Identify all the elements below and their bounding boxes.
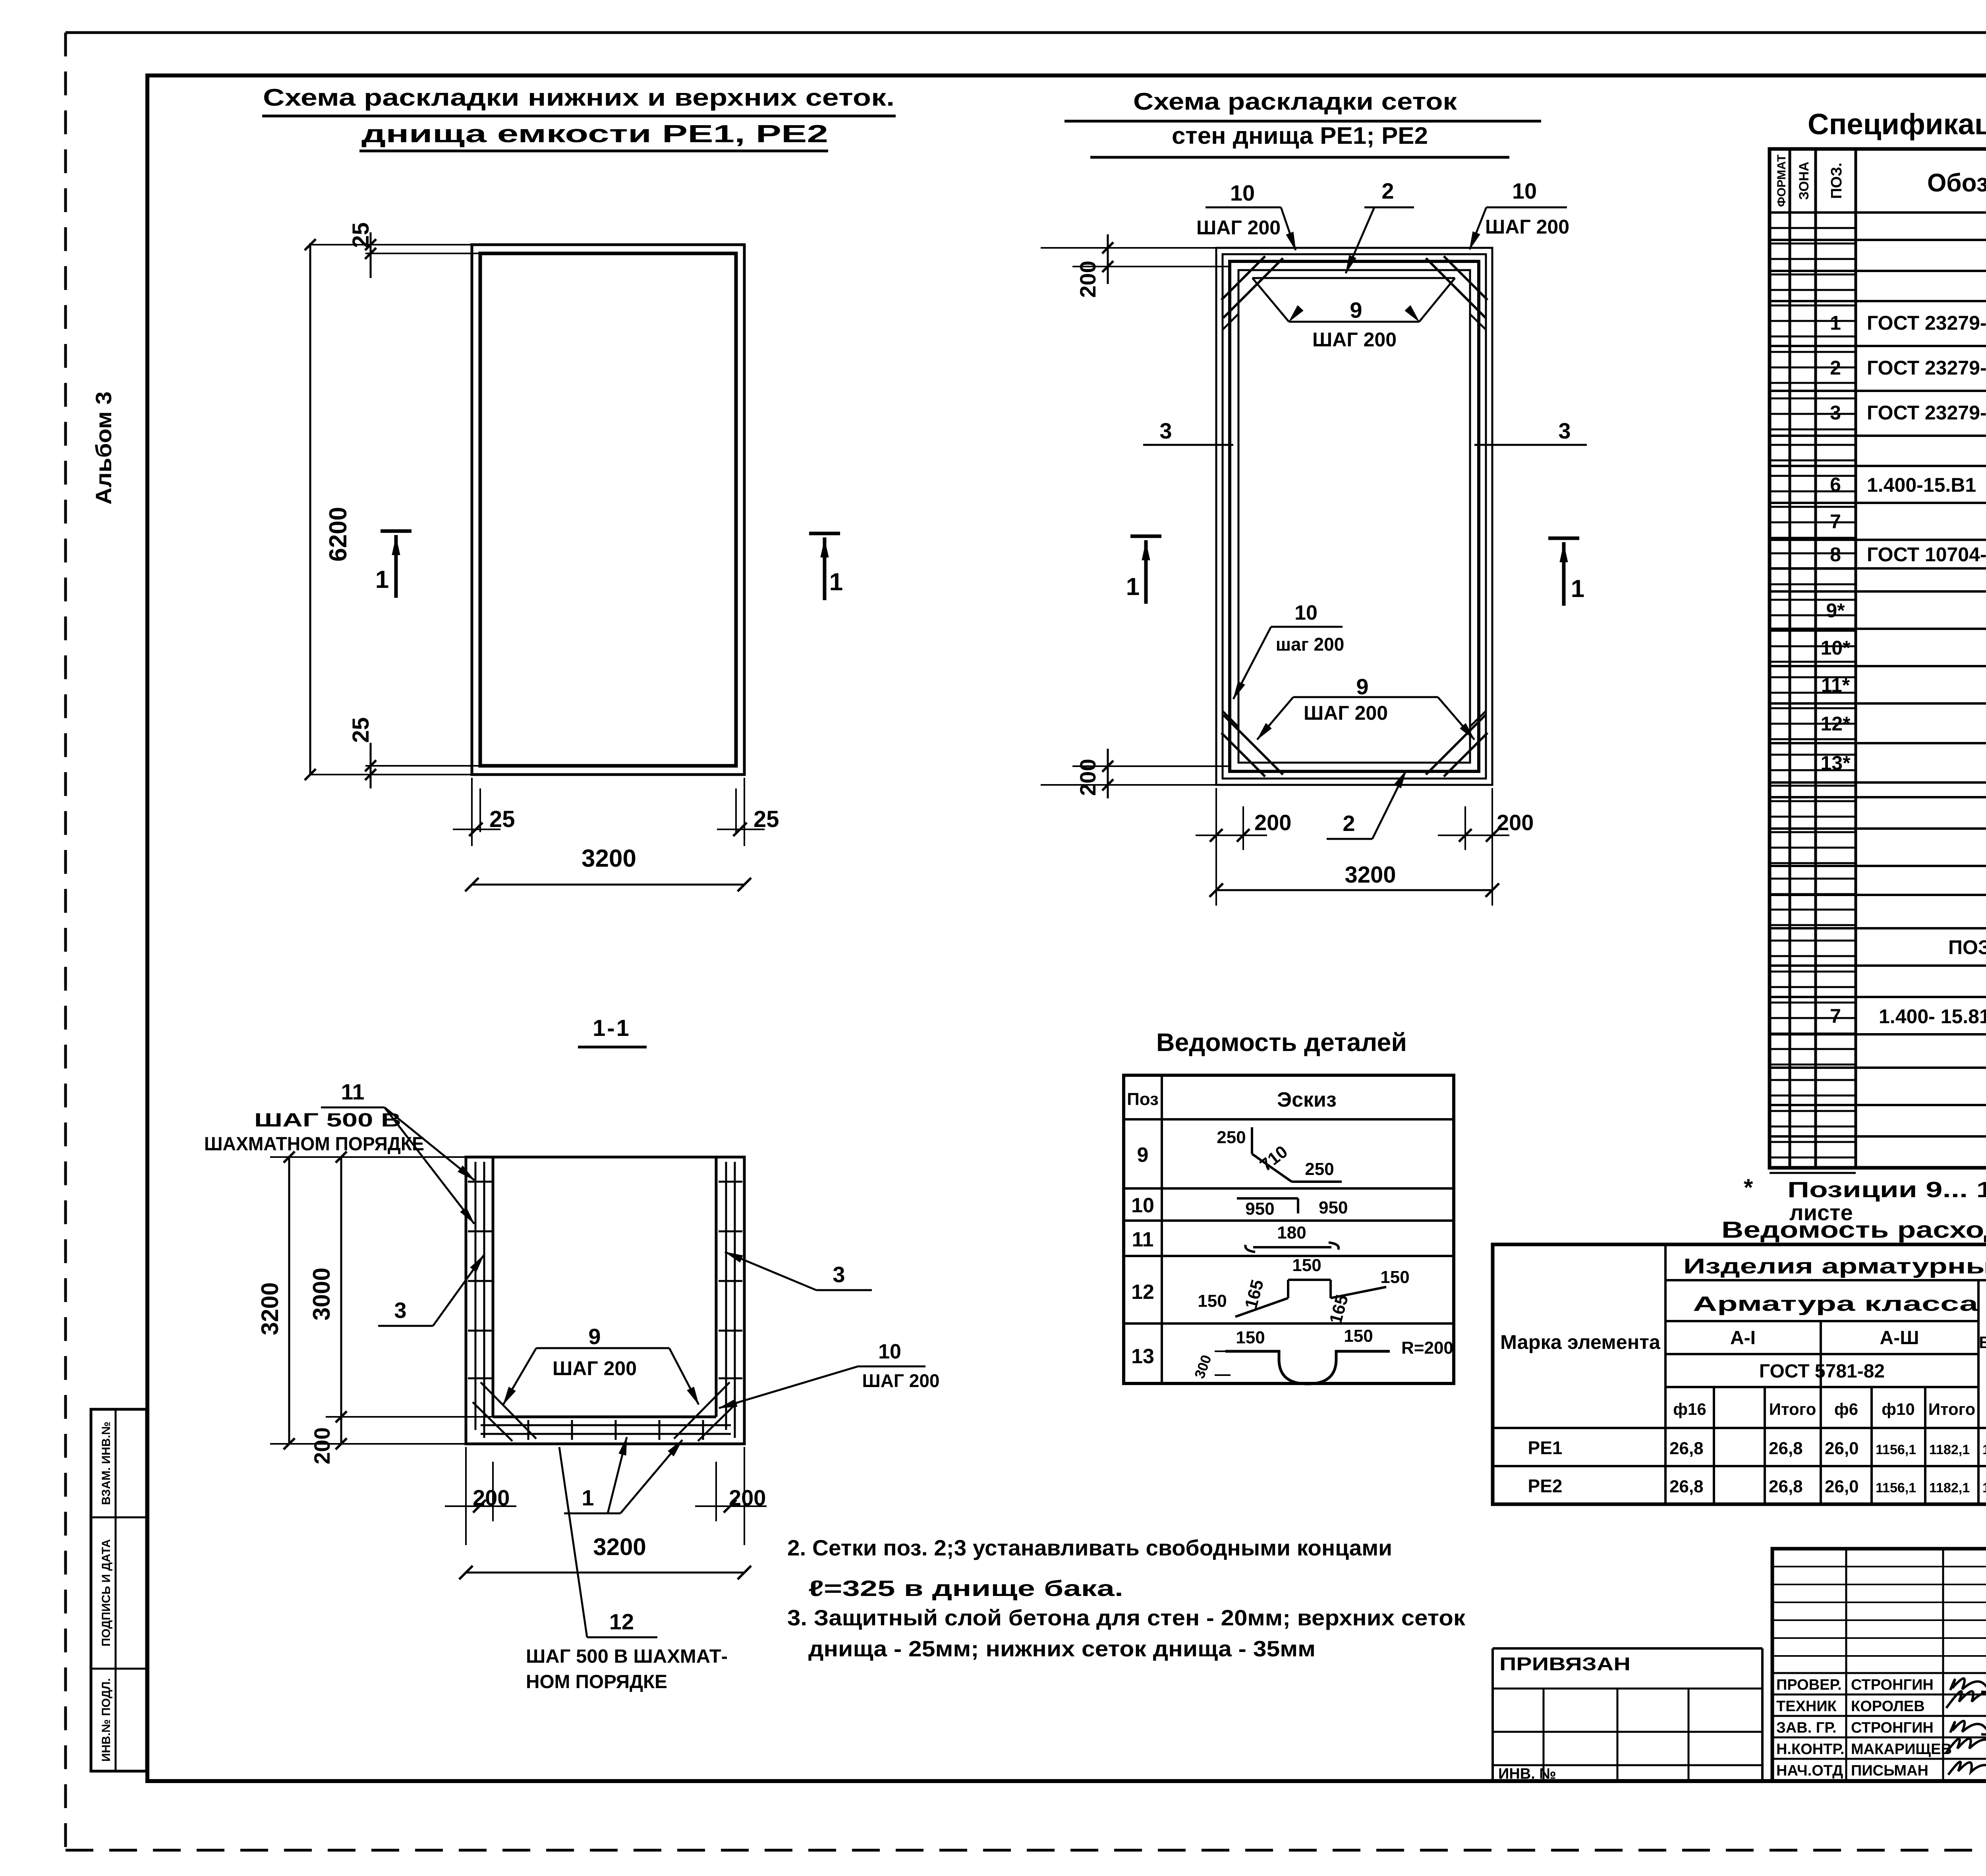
svg-text:ЗАВ. ГР.: ЗАВ. ГР. (1776, 1720, 1837, 1736)
svg-text:26,8: 26,8 (1669, 1477, 1704, 1496)
svg-text:ШАГ 200: ШАГ 200 (1485, 216, 1569, 238)
svg-text:ШАГ 200: ШАГ 200 (1304, 702, 1388, 724)
svg-text:ПРИВЯЗАН: ПРИВЯЗАН (1499, 1654, 1631, 1674)
steel table grid (1493, 1244, 1986, 1504)
svg-text:1: 1 (582, 1485, 594, 1510)
svg-text:7: 7 (1830, 1005, 1841, 1027)
svg-text:ПОЗ. 1...6 ,: ПОЗ. 1...6 , (1948, 936, 1986, 958)
dimension 3000 / 200 (section inner) (340, 1157, 342, 1444)
svg-text:ГОСТ 23279-85: ГОСТ 23279-85 (1867, 357, 1986, 379)
svg-text:13: 13 (1131, 1345, 1154, 1368)
svg-text:10: 10 (1230, 180, 1255, 205)
section mark 1 (right of wall view) (1548, 537, 1579, 540)
svg-text:25: 25 (348, 717, 374, 743)
svg-text:1: 1 (1126, 573, 1140, 601)
svg-text:9: 9 (1356, 674, 1368, 699)
dimension 3200 (wall view bottom) (1216, 889, 1492, 891)
dimension 3200 (plan bottom) (472, 884, 744, 886)
dimension 200 (top-left of wall view) (1041, 247, 1216, 249)
svg-text:МАКАРИЩЕВ: МАКАРИЩЕВ (1851, 1741, 1952, 1758)
svg-text:Арматура класса: Арматура класса (1693, 1293, 1979, 1316)
corner diagonals top-left (1221, 256, 1265, 300)
svg-text:25: 25 (753, 806, 779, 832)
wall mesh view: outer contour (1216, 248, 1492, 785)
privyazan block (1493, 1647, 1762, 1650)
svg-text:ИНВ.№ ПОДЛ.: ИНВ.№ ПОДЛ. (100, 1678, 113, 1762)
plan view outline (472, 245, 744, 775)
svg-text:*: * (1744, 1174, 1753, 1201)
svg-text:РЕ2: РЕ2 (1528, 1476, 1563, 1496)
wall mesh view: inner contour (1238, 270, 1470, 763)
svg-text:Марка элемента: Марка элемента (1500, 1331, 1661, 1353)
svg-text:200: 200 (1075, 759, 1100, 796)
svg-text:3200: 3200 (593, 1534, 646, 1560)
svg-text:ШАХМАТНОМ ПОРЯДКЕ: ШАХМАТНОМ ПОРЯДКЕ (204, 1134, 424, 1155)
outer border (66, 31, 1986, 34)
specification table grid (1770, 149, 1986, 1168)
svg-text:26,0: 26,0 (1825, 1439, 1859, 1458)
svg-text:26,8: 26,8 (1669, 1439, 1704, 1458)
svg-text:11: 11 (341, 1079, 364, 1104)
svg-text:2. Сетки поз. 2;3 устанавлива: 2. Сетки поз. 2;3 устанавливать свободны… (787, 1535, 1392, 1560)
svg-text:Итого: Итого (1769, 1400, 1816, 1418)
svg-text:3: 3 (833, 1262, 845, 1287)
svg-text:10: 10 (1294, 601, 1318, 624)
svg-text:Всего: Всего (1979, 1333, 1986, 1352)
svg-text:шаг 200: шаг 200 (1276, 634, 1345, 655)
svg-text:ф16: ф16 (1673, 1400, 1706, 1418)
svg-text:1156,1: 1156,1 (1876, 1442, 1916, 1457)
svg-text:Поз: Поз (1127, 1090, 1159, 1109)
svg-text:ШАГ 200: ШАГ 200 (1312, 328, 1397, 351)
svg-text:1182,1: 1182,1 (1929, 1442, 1970, 1457)
svg-text:150: 150 (1344, 1326, 1373, 1346)
svg-text:А-I: А-I (1730, 1327, 1756, 1349)
svg-text:2: 2 (1830, 357, 1841, 379)
svg-text:9: 9 (1137, 1144, 1149, 1167)
svg-text:200: 200 (1254, 810, 1291, 835)
svg-text:150: 150 (1236, 1328, 1265, 1347)
svg-text:3000: 3000 (308, 1267, 335, 1320)
svg-text:Альбом 3: Альбом 3 (91, 392, 116, 505)
mesh 9 extent (top trapezoid) (1252, 277, 1455, 279)
right wall inner edge (715, 1157, 718, 1417)
svg-text:3: 3 (1830, 402, 1841, 424)
svg-text:3200: 3200 (257, 1282, 283, 1335)
svg-text:1-1: 1-1 (593, 1015, 631, 1041)
left wall mesh (475, 1162, 477, 1430)
svg-text:РЕ1: РЕ1 (1528, 1437, 1563, 1458)
svg-text:950: 950 (1319, 1198, 1348, 1217)
svg-text:СТРОНГИН: СТРОНГИН (1851, 1677, 1934, 1693)
svg-text:26,0: 26,0 (1825, 1477, 1859, 1496)
svg-text:9*: 9* (1826, 599, 1845, 622)
svg-text:200: 200 (1075, 261, 1100, 298)
svg-text:6200: 6200 (325, 507, 352, 562)
svg-text:3: 3 (1159, 418, 1172, 443)
svg-text:6: 6 (1830, 473, 1841, 496)
svg-text:1182,1: 1182,1 (1929, 1480, 1970, 1495)
wall mesh dashes (1223, 314, 1238, 330)
svg-text:150: 150 (1380, 1267, 1409, 1287)
svg-text:26,8: 26,8 (1769, 1477, 1803, 1496)
svg-text:Ведомость деталей: Ведомость деталей (1156, 1028, 1407, 1057)
svg-text:ВЗАМ. ИНВ.№: ВЗАМ. ИНВ.№ (100, 1422, 113, 1505)
bottom dimensions of wall view (1215, 788, 1217, 906)
svg-text:3: 3 (1558, 418, 1571, 443)
svg-text:10*: 10* (1820, 637, 1851, 659)
sketch pos 10 (1237, 1197, 1298, 1200)
slab mesh (481, 1424, 731, 1426)
svg-text:ШАГ 500 В: ШАГ 500 В (254, 1110, 401, 1131)
section outline (466, 1157, 744, 1444)
mesh 9 extent (bottom trapezoid) (1293, 696, 1438, 698)
svg-text:2: 2 (1343, 811, 1355, 836)
svg-text:950: 950 (1245, 1199, 1274, 1219)
dimension 25 bottom (left end of 3200) (471, 778, 473, 846)
section mark 1 (right of plan) (809, 532, 840, 535)
corner diagonals top-right (1444, 256, 1488, 300)
svg-text:10: 10 (878, 1340, 901, 1363)
svg-text:ПОЗ.: ПОЗ. (1828, 162, 1845, 199)
svg-text:1.400- 15.81: 1.400- 15.81 (1879, 1005, 1986, 1028)
svg-text:9: 9 (1350, 298, 1362, 323)
svg-text:10: 10 (1512, 178, 1537, 203)
svg-text:ИНВ. №: ИНВ. № (1498, 1766, 1556, 1782)
svg-text:ШАГ 200: ШАГ 200 (553, 1357, 637, 1379)
svg-text:8: 8 (1830, 543, 1841, 566)
svg-text:710: 710 (1256, 1142, 1291, 1175)
svg-text:ТЕХНИК: ТЕХНИК (1776, 1698, 1837, 1715)
svg-text:1156,1: 1156,1 (1876, 1480, 1916, 1495)
svg-text:1: 1 (375, 566, 389, 593)
title block outline (1772, 1549, 1986, 1781)
svg-text:ПРОВЕР.: ПРОВЕР. (1776, 1677, 1842, 1693)
dimension 200 (bottom-left of wall view) (1041, 784, 1216, 786)
svg-text:НАЧ.ОТД: НАЧ.ОТД (1776, 1762, 1843, 1779)
svg-text:ℓ=325 в днище бака.: ℓ=325 в днище бака. (808, 1576, 1123, 1601)
svg-text:ШАГ 200: ШАГ 200 (1196, 216, 1281, 239)
section mark 1 (left of wall view) (1130, 535, 1161, 538)
svg-text:11*: 11* (1821, 674, 1850, 696)
svg-text:стен днища РЕ1; РЕ2: стен днища РЕ1; РЕ2 (1172, 122, 1428, 149)
svg-text:25: 25 (489, 806, 515, 832)
signatures (1950, 1679, 1986, 1692)
label 12 with leader (559, 1447, 587, 1637)
svg-text:ГОСТ 23279-85: ГОСТ 23279-85 (1867, 312, 1986, 334)
svg-text:9: 9 (588, 1324, 601, 1349)
svg-text:Спецификация арматуры к РЕ1: Спецификация арматуры к РЕ1; РЕ2. (1808, 108, 1986, 141)
corner diagonals bottom-right (1444, 733, 1488, 777)
svg-text:13*: 13* (1820, 752, 1851, 774)
svg-text:Эскиз: Эскиз (1277, 1088, 1337, 1111)
svg-text:3200: 3200 (582, 845, 636, 872)
svg-text:КОРОЛЕВ: КОРОЛЕВ (1851, 1698, 1925, 1715)
svg-text:ф6: ф6 (1834, 1400, 1858, 1418)
svg-text:12*: 12* (1820, 713, 1851, 735)
svg-text:200: 200 (309, 1427, 334, 1464)
left margin stamp strip (91, 1409, 147, 1771)
svg-text:3. Защитный слой бетона для: 3. Защитный слой бетона для стен - 20мм;… (787, 1605, 1466, 1630)
svg-text:ФОРМАТ: ФОРМАТ (1775, 155, 1788, 207)
svg-text:10: 10 (1131, 1194, 1154, 1217)
svg-text:1: 1 (829, 568, 843, 596)
svg-text:3200: 3200 (1345, 862, 1396, 888)
svg-text:1: 1 (1571, 575, 1584, 603)
svg-text:1208,9: 1208,9 (1982, 1480, 1986, 1495)
corner diagonals bottom-left (1221, 733, 1265, 777)
svg-text:200: 200 (729, 1485, 766, 1510)
svg-text:ф10: ф10 (1882, 1400, 1915, 1418)
svg-text:150: 150 (1198, 1291, 1227, 1311)
mesh 9 extent in section (536, 1347, 669, 1349)
svg-text:300: 300 (1191, 1352, 1215, 1380)
svg-text:ПИСЬМАН: ПИСЬМАН (1851, 1762, 1928, 1779)
parts list table (1124, 1075, 1454, 1383)
svg-text:26,8: 26,8 (1769, 1439, 1803, 1458)
svg-text:ГОСТ 23279-85: ГОСТ 23279-85 (1867, 402, 1986, 424)
dimension 25 top-left (365, 253, 480, 254)
slab top edge (493, 1416, 716, 1418)
svg-text:180: 180 (1277, 1223, 1306, 1242)
svg-text:А-Ш: А-Ш (1880, 1327, 1919, 1349)
svg-text:200: 200 (1497, 810, 1534, 835)
svg-text:11: 11 (1132, 1228, 1154, 1251)
svg-text:250: 250 (1217, 1128, 1246, 1147)
corner bars bottom-right (674, 1382, 730, 1439)
corner bars bottom-left (481, 1382, 536, 1439)
svg-text:Позиции 9... 13 см. ведомо: Позиции 9... 13 см. ведомость деталей на… (1787, 1177, 1986, 1202)
svg-text:1: 1 (1830, 312, 1841, 334)
dimension 25 bottom-left (365, 765, 480, 767)
svg-text:Схема раскладки сеток: Схема раскладки сеток (1133, 88, 1457, 115)
svg-text:днища - 25мм; нижних сеток: днища - 25мм; нижних сеток днища - 35мм (808, 1636, 1316, 1661)
svg-text:12: 12 (609, 1609, 634, 1634)
svg-text:днища емкости РЕ1, РЕ2: днища емкости РЕ1, РЕ2 (361, 120, 828, 148)
right wall mesh (725, 1162, 727, 1430)
svg-text:Схема раскладки нижних и верхн: Схема раскладки нижних и верхних сеток. (263, 84, 894, 111)
section mark 1 (left of plan) (381, 529, 411, 533)
svg-text:1.400-15.В1: 1.400-15.В1 (1867, 474, 1976, 496)
svg-text:2: 2 (1381, 178, 1394, 203)
wall mesh view: mesh line outer (1223, 254, 1486, 779)
svg-text:Н.КОНТР.: Н.КОНТР. (1776, 1741, 1845, 1758)
svg-text:ШАГ 200: ШАГ 200 (862, 1370, 939, 1391)
svg-text:ШАГ 500 В ШАХМАТ-: ШАГ 500 В ШАХМАТ- (526, 1646, 728, 1667)
svg-text:25: 25 (348, 222, 374, 248)
svg-text:1208,9: 1208,9 (1982, 1442, 1986, 1457)
svg-text:Ведомость расхода стали: Ведомость расхода стали на элемент, кг. (1721, 1217, 1986, 1243)
svg-text:Изделия арматурные: Изделия арматурные (1683, 1254, 1986, 1278)
svg-text:Итого: Итого (1928, 1400, 1975, 1418)
svg-text:3: 3 (394, 1298, 406, 1323)
bottom dimensions of section (465, 1447, 467, 1545)
dimension 6200 (left vertical) (309, 243, 311, 775)
svg-text:НОМ ПОРЯДКЕ: НОМ ПОРЯДКЕ (526, 1671, 667, 1692)
title block left grid (1845, 1549, 1847, 1781)
svg-text:ГОСТ 10704-76: ГОСТ 10704-76 (1867, 543, 1986, 566)
svg-text:200: 200 (473, 1485, 510, 1510)
svg-text:СТРОНГИН: СТРОНГИН (1851, 1720, 1934, 1736)
svg-text:R=200: R=200 (1401, 1338, 1453, 1358)
dimension 3200 (section left) (288, 1157, 290, 1444)
svg-text:ПОДПИСЬ И ДАТА: ПОДПИСЬ И ДАТА (100, 1539, 113, 1646)
wall mesh view: mesh line inner (1230, 261, 1479, 771)
svg-text:12: 12 (1131, 1281, 1154, 1304)
svg-text:ЗОНА: ЗОНА (1797, 162, 1812, 200)
dimension 25 bottom (right end of 3200) (744, 778, 745, 846)
svg-text:7: 7 (1830, 510, 1841, 533)
svg-text:250: 250 (1305, 1159, 1334, 1179)
svg-text:ГОСТ 5781-82: ГОСТ 5781-82 (1759, 1361, 1885, 1382)
dimension 3200 (section bottom) (466, 1572, 744, 1574)
plan view mesh rectangle (480, 253, 736, 766)
svg-text:150: 150 (1292, 1256, 1321, 1275)
left wall inner edge (492, 1157, 495, 1417)
svg-text:Обозначение: Обозначение (1927, 168, 1986, 197)
